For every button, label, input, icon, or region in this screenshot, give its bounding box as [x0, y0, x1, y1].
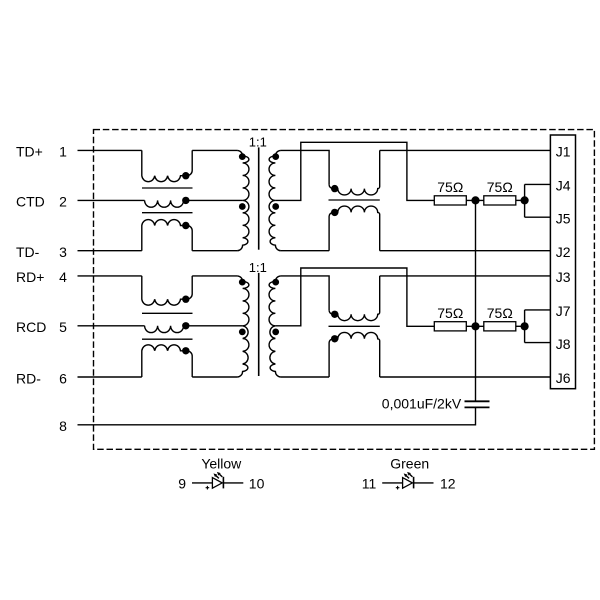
LED D2 cathode bar: [413, 477, 415, 489]
svg-text:J8: J8: [556, 336, 571, 352]
wire T2 secondary center tap over-route: [275, 268, 434, 326]
wire T1 secondary center tap over-route: [275, 142, 434, 200]
wire to J3: [380, 275, 551, 277]
choke L1 core line 1: [142, 187, 193, 189]
polarity dot T2 secondary top: [272, 279, 279, 286]
svg-text:J7: J7: [556, 303, 571, 319]
polarity dot T1 secondary bottom-half: [272, 203, 279, 210]
wire R1b to node: [516, 199, 525, 201]
svg-text:1: 1: [59, 144, 67, 160]
svg-text:2: 2: [59, 194, 67, 210]
choke L1b winding 2: [329, 206, 380, 251]
wire pin 1: [78, 149, 142, 151]
polarity dot L2b.1: [331, 311, 338, 318]
resistor R2b 75&#937;: [484, 322, 516, 331]
choke L2b core line: [329, 325, 380, 327]
svg-text:8: 8: [59, 418, 67, 434]
svg-text:12: 12: [440, 476, 456, 492]
transformer T1 secondary winding: [269, 150, 281, 250]
choke L2b winding 2: [329, 332, 380, 377]
svg-text:RD-: RD-: [16, 370, 41, 386]
wire pin 6: [78, 376, 142, 378]
choke L2 winding 1: [142, 276, 192, 305]
svg-text:5: 5: [59, 319, 67, 335]
resistor R2a 75&#937;: [434, 322, 466, 331]
polarity dot L1.1: [182, 172, 189, 179]
svg-text:RD+: RD+: [16, 269, 44, 285]
polarity dot L2b.2: [331, 335, 338, 342]
wire L2 to T2 center tap: [184, 325, 243, 327]
resistor R1b 75&#937;: [484, 196, 516, 205]
junction node 2 bracket: [521, 322, 529, 330]
wire pin 3: [78, 250, 142, 252]
svg-text:RCD: RCD: [16, 319, 46, 335]
polarity dot T2 primary bottom-half: [239, 329, 246, 336]
choke L1b winding 1: [329, 150, 380, 195]
svg-text:J5: J5: [556, 210, 571, 226]
wire L1 to T1 center tap: [184, 199, 243, 201]
svg-text:1:1: 1:1: [249, 134, 267, 149]
polarity dot T1 primary top: [239, 153, 246, 160]
svg-text:4: 4: [59, 269, 67, 285]
polarity dot L1.2: [182, 197, 189, 204]
LED D2 anode plus mark: [396, 486, 400, 490]
wire LED D1 to pin 10: [223, 482, 243, 484]
svg-text:1:1: 1:1: [249, 260, 267, 275]
svg-text:75Ω: 75Ω: [487, 179, 513, 195]
transformer T2 secondary winding: [269, 276, 281, 377]
choke L1 core line 2: [142, 212, 193, 214]
wire T1 secondary bottom to L1b: [281, 250, 329, 252]
polarity dot L1b.1: [331, 185, 338, 192]
choke L1 winding 3: [142, 220, 192, 251]
transformer T2 primary winding: [237, 276, 249, 377]
polarity dot T2 primary top: [239, 279, 246, 286]
choke L1 winding 1: [142, 150, 192, 181]
transformer T1 primary winding: [237, 150, 249, 250]
junction node termination 2: [471, 322, 479, 330]
wire R1a to R1b: [466, 199, 484, 201]
polarity dot L2.1: [182, 296, 189, 303]
svg-text:Green: Green: [390, 455, 429, 471]
svg-text:11: 11: [362, 476, 377, 492]
svg-text:75Ω: 75Ω: [437, 179, 463, 195]
svg-text:3: 3: [59, 244, 67, 260]
svg-text:CTD: CTD: [16, 194, 45, 210]
polarity dot T1 primary bottom-half: [239, 203, 246, 210]
wire pin 5: [78, 325, 145, 327]
wire capacitor C1 to pin 8: [78, 407, 476, 424]
choke L1b core line: [329, 199, 380, 201]
svg-text:TD-: TD-: [16, 244, 40, 260]
wire termination nodes to capacitor C1: [475, 200, 477, 401]
polarity dot L2.2: [182, 322, 189, 329]
polarity dot L1b.2: [331, 209, 338, 216]
wire L2 to T2 primary bottom: [192, 376, 237, 378]
polarity dot T2 secondary bottom-half: [272, 329, 279, 336]
LED D1 cathode bar: [222, 477, 224, 489]
choke L1 winding 2: [145, 200, 184, 207]
wire LED D2 to pin 12: [414, 482, 434, 484]
dashed module outline: [94, 130, 595, 450]
svg-text:0,001uF/2kV: 0,001uF/2kV: [382, 396, 462, 412]
wire T1 secondary top to L1b: [281, 150, 329, 184]
choke L2 winding 3: [142, 345, 192, 377]
LED D1 anode plus mark: [206, 486, 210, 490]
wire pin 11 to LED D2: [382, 482, 402, 484]
svg-text:6: 6: [59, 370, 67, 386]
wire pin 9 to LED D1: [192, 482, 212, 484]
wire R2b to node: [516, 325, 525, 327]
connector box J1-J8: [550, 135, 575, 389]
wire to J2: [380, 250, 551, 252]
wire T2 secondary top to L2b: [281, 276, 329, 310]
capacitor C1 plate bottom: [465, 406, 490, 408]
wire pin 4: [78, 275, 142, 277]
wire bracket to J4/J5: [525, 184, 551, 217]
LED D1 light arrows: [217, 472, 221, 476]
wire L1 to T1 primary bottom: [192, 250, 237, 252]
svg-text:J4: J4: [556, 178, 571, 194]
svg-text:J6: J6: [556, 370, 571, 386]
wire R2a to R2b: [466, 325, 484, 327]
svg-text:10: 10: [249, 476, 265, 492]
capacitor C1 plate top: [465, 400, 490, 402]
svg-text:TD+: TD+: [16, 144, 43, 160]
wire bracket to J7/J8: [525, 310, 551, 343]
svg-text:9: 9: [178, 476, 186, 492]
resistor R1a 75&#937;: [434, 196, 466, 205]
polarity dot L1.3: [182, 222, 189, 229]
wire pin 2: [78, 199, 145, 201]
svg-text:75Ω: 75Ω: [437, 305, 463, 321]
choke L2 core line 1: [142, 312, 193, 314]
wire L2 to T2 primary top: [192, 275, 237, 277]
LED D2 triangle: [403, 478, 413, 489]
transformer T2 core: [258, 273, 260, 376]
wire L1 to T1 primary top: [192, 149, 237, 151]
transformer T1 core: [258, 147, 260, 249]
junction node termination 1: [471, 196, 479, 204]
svg-text:J2: J2: [556, 244, 571, 260]
choke L2 winding 2: [145, 326, 184, 333]
svg-text:J1: J1: [556, 144, 571, 160]
svg-text:J3: J3: [556, 269, 571, 285]
wire to J1: [380, 149, 551, 151]
polarity dot L2.3: [182, 347, 189, 354]
choke L2 core line 2: [142, 338, 193, 340]
LED D2 light arrows: [407, 472, 411, 476]
svg-text:Yellow: Yellow: [201, 455, 242, 471]
LED D1 triangle: [212, 478, 222, 489]
wire T2 secondary bottom to L2b: [281, 376, 329, 378]
svg-text:75Ω: 75Ω: [487, 305, 513, 321]
wire to J6: [380, 376, 551, 378]
choke L2b winding 1: [329, 276, 380, 321]
junction node 1 bracket: [521, 196, 529, 204]
polarity dot T1 secondary top: [272, 153, 279, 160]
